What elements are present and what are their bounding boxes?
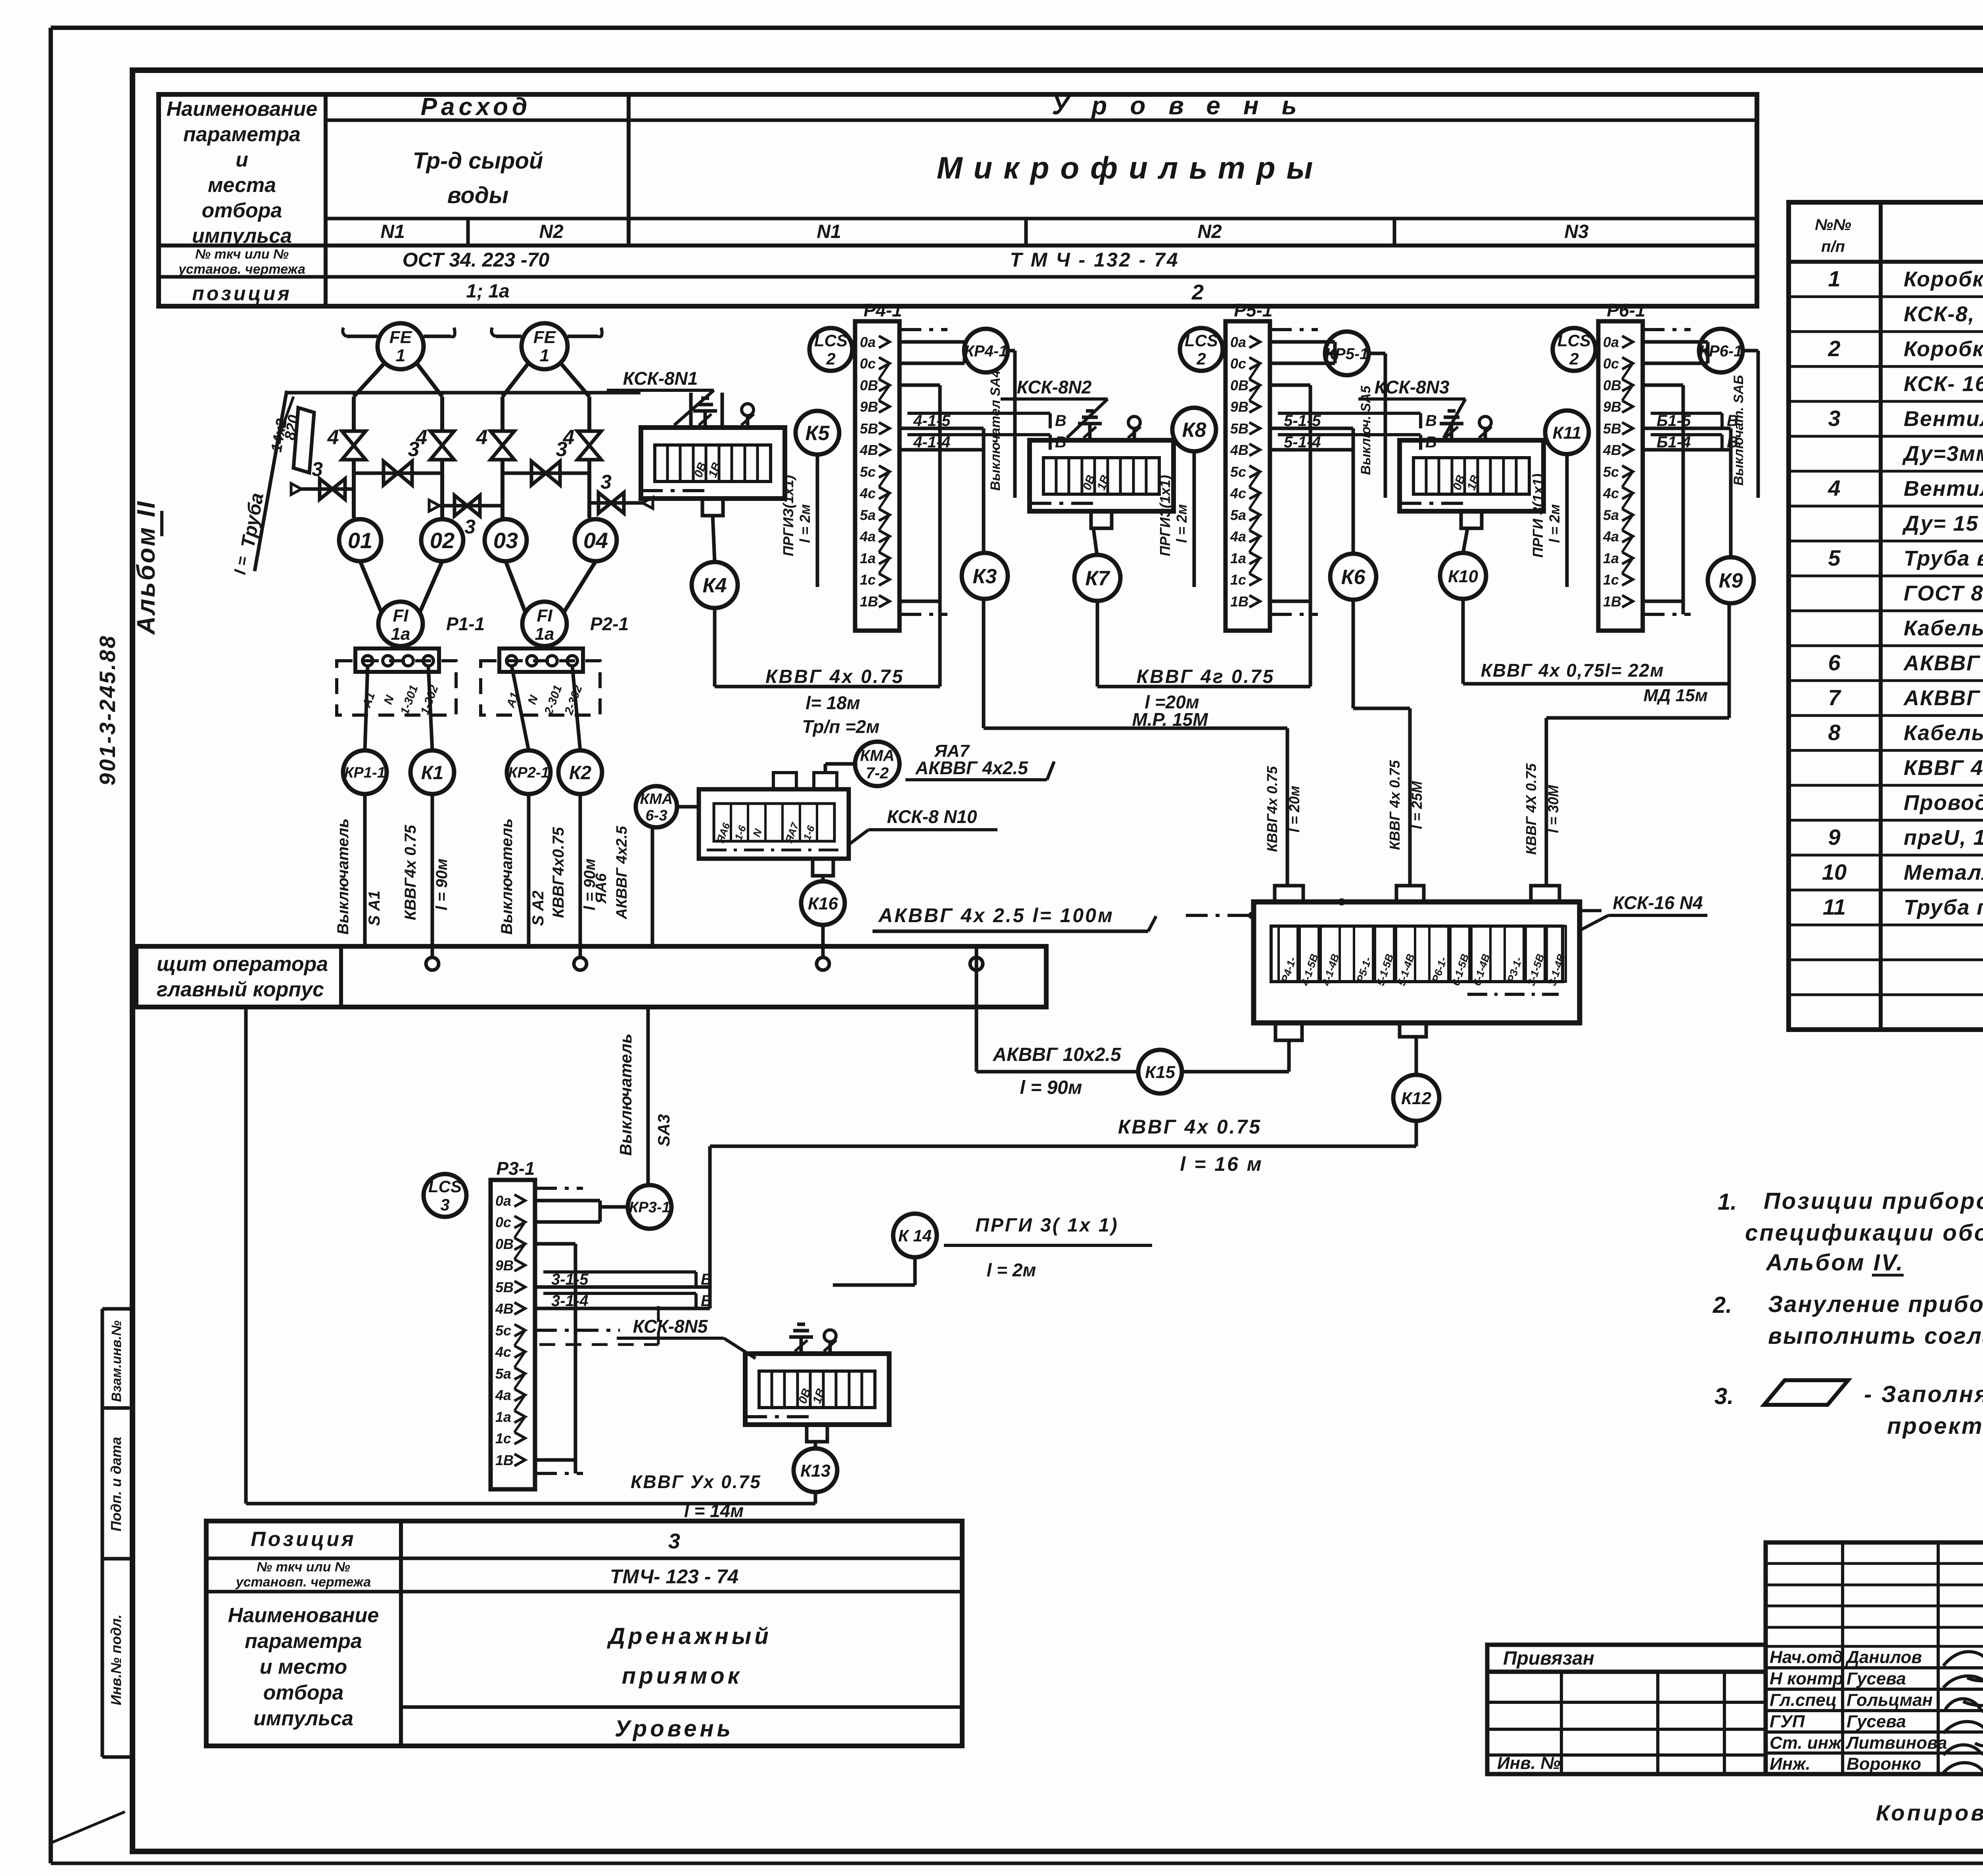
svg-text:К10: К10 <box>1448 567 1479 586</box>
wire box N3 to К10 <box>1463 529 1467 553</box>
svg-text:КР1-1: КР1-1 <box>344 765 385 781</box>
wires from КР1-1 К1 КР2-1 К2 to panel <box>365 794 580 957</box>
svg-text:КСК- 16, ТУ 36. 17 53: КСК- 16, ТУ 36. 17 53 <box>1904 372 1983 396</box>
wires to КР1-1 and К1 <box>365 666 432 750</box>
label КСК-8N1 <box>607 368 714 425</box>
svg-text:Н контр: Н контр <box>1770 1669 1843 1688</box>
circle КР2-1 <box>507 750 550 794</box>
svg-text:3: 3 <box>556 438 568 461</box>
svg-text:К6: К6 <box>1341 566 1366 589</box>
svg-text:КМА: КМА <box>860 747 895 764</box>
svg-text:КВВГ 4х 0,75l= 22м: КВВГ 4х 0,75l= 22м <box>1481 660 1665 681</box>
svg-text:Инж.: Инж. <box>1770 1754 1810 1774</box>
svg-text:Инв.№ подл.: Инв.№ подл. <box>108 1614 124 1705</box>
svg-text:1а: 1а <box>1603 550 1619 566</box>
svg-text:03: 03 <box>493 528 518 553</box>
circle О1 <box>339 519 381 561</box>
svg-text:КСК-8, ТУ 36. 1753: КСК-8, ТУ 36. 1753 <box>1904 302 1983 326</box>
svg-text:Позиции приборов соответст: Позиции приборов соответствуют <box>1764 1188 1983 1214</box>
relay Р5-1 output loop to КР5-1 <box>1270 342 1335 363</box>
svg-text:Т М Ч - 132 - 74: Т М Ч - 132 - 74 <box>1010 249 1179 271</box>
svg-text:КСК-8N5: КСК-8N5 <box>633 1316 708 1337</box>
svg-text:Металлорукав Р3-Ц-Х29: Металлорукав Р3-Ц-Х29 <box>1904 861 1983 884</box>
circle О2 <box>421 519 463 561</box>
circle КР5-1 <box>1325 332 1369 375</box>
wires to КР2-1 and К2 <box>512 666 580 750</box>
svg-text:4: 4 <box>327 426 339 449</box>
svg-text:К13: К13 <box>800 1461 830 1481</box>
svg-text:11: 11 <box>1823 894 1846 919</box>
valves 4 on Р1-1 impulse pipes <box>327 426 454 460</box>
svg-text:ПРГИ 3(1х1): ПРГИ 3(1х1) <box>1530 474 1546 558</box>
svg-text:N2: N2 <box>539 221 564 242</box>
contact wires 5-1-5/5-1-4 <box>1270 412 1437 451</box>
svg-text:1: 1 <box>396 346 405 365</box>
svg-text:FI: FI <box>537 606 552 625</box>
svg-text:N3: N3 <box>1564 221 1589 242</box>
svg-text:0с: 0с <box>1603 355 1619 372</box>
svg-text:LCS: LCS <box>428 1177 462 1196</box>
svg-text:l = 30М: l = 30М <box>1545 785 1561 833</box>
svg-text:1: 1 <box>1828 266 1840 291</box>
svg-text:0а: 0а <box>1230 334 1246 350</box>
svg-text:АКВВГ 10х2.5 кв.мм: АКВВГ 10х2.5 кв.мм <box>1903 686 1983 710</box>
cable КВВГ 4х0.75 l=14м from К13 to panel <box>246 1007 815 1521</box>
svg-text:2.: 2. <box>1713 1292 1732 1318</box>
svg-text:КВВГ4х0.75: КВВГ4х0.75 <box>550 827 567 918</box>
svg-text:Расход: Расход <box>421 93 531 121</box>
circle LCS Р4-1 <box>809 328 852 371</box>
svg-text:0а: 0а <box>860 334 876 350</box>
svg-text:К4: К4 <box>703 574 727 597</box>
svg-text:В: В <box>1055 434 1066 451</box>
wires О to FI Р2-1 <box>502 518 596 613</box>
cable КВВГ 4х0.75 l=22м from К10/К9 <box>1463 597 1729 886</box>
svg-text:К 14: К 14 <box>898 1226 932 1245</box>
circle К15 <box>1138 1050 1182 1093</box>
svg-text:КР6-1: КР6-1 <box>1699 342 1742 360</box>
svg-text:4с: 4с <box>859 485 876 501</box>
album II margin text <box>132 500 162 635</box>
svg-text:Р6-1: Р6-1 <box>1607 300 1645 320</box>
svg-text:импульса: импульса <box>192 224 292 247</box>
svg-text:5с: 5с <box>1603 464 1619 480</box>
svg-text:КВВГ 4Х 0.75: КВВГ 4Х 0.75 <box>1523 763 1539 855</box>
title block signature section <box>1766 1542 1983 1774</box>
svg-text:Уровень: Уровень <box>1052 91 1319 120</box>
svg-text:Вентиль запорный муфтовый: Вентиль запорный муфтовый <box>1904 407 1983 431</box>
svg-text:l = 90м: l = 90м <box>433 859 451 911</box>
cable КВВГ 4х0.75 l=25м from К6 <box>1353 600 1425 886</box>
svg-text:0В: 0В <box>495 1236 514 1252</box>
svg-text:3.: 3. <box>1715 1383 1734 1409</box>
label КСК-8N5 <box>617 1316 756 1358</box>
svg-text:Гусева: Гусева <box>1847 1712 1906 1731</box>
svg-text:0В: 0В <box>1603 377 1621 393</box>
svg-text:К11: К11 <box>1553 423 1582 443</box>
svg-text:В: В <box>1425 412 1437 430</box>
svg-text:установп. чертежа: установп. чертежа <box>235 1575 371 1590</box>
svg-text:МД 15м: МД 15м <box>1644 686 1708 705</box>
ground and test point above box <box>789 1324 836 1354</box>
svg-text:Провод гибкий с медной жил: Провод гибкий с медной жилой <box>1904 791 1983 815</box>
svg-text:параметра: параметра <box>245 1630 362 1653</box>
svg-text:1а: 1а <box>535 624 554 644</box>
svg-text:02: 02 <box>430 528 455 553</box>
svg-text:параметра: параметра <box>183 123 301 146</box>
svg-text:Кабель контрольный ГОСТ 1508-: Кабель контрольный ГОСТ 1508-78Е <box>1904 616 1983 640</box>
svg-text:1с: 1с <box>1603 572 1619 588</box>
svg-text:3: 3 <box>440 1195 449 1214</box>
wire Р6-1 contacts to К9 <box>1729 428 1733 557</box>
svg-text:l = 2м: l = 2м <box>987 1260 1036 1280</box>
svg-text:0В: 0В <box>1230 377 1248 393</box>
flow element FE Р2-1 group <box>491 323 602 518</box>
wire box N5 to К13 <box>814 1442 817 1448</box>
svg-text:3-1-4: 3-1-4 <box>551 1292 588 1310</box>
circle КМА7-2 <box>855 742 899 786</box>
svg-text:4В: 4В <box>1603 442 1621 458</box>
wire box N2 to К7 <box>1093 529 1097 555</box>
svg-text:4В: 4В <box>495 1301 514 1317</box>
svg-text:9В: 9В <box>860 399 878 415</box>
notes text block <box>1713 1188 1983 1439</box>
signatures squiggles <box>1943 1646 1983 1791</box>
operator panel strip щит оператора <box>136 946 1046 1007</box>
svg-text:ПРГИ 3( 1х 1): ПРГИ 3( 1х 1) <box>975 1215 1118 1236</box>
spec table rows <box>1822 266 1983 919</box>
svg-text:l = 2м: l = 2м <box>1174 504 1190 543</box>
svg-text:5В: 5В <box>1230 420 1248 437</box>
switch labels SА1 SА2 and cable labels <box>334 818 598 934</box>
svg-text:SА3: SА3 <box>654 1114 673 1147</box>
svg-text:3: 3 <box>408 438 420 461</box>
svg-text:1а: 1а <box>860 550 876 566</box>
equalizing valve 3 of Р1-1 <box>354 438 442 485</box>
cable КВВГ 4х0.75 l=20м from К7 <box>1097 601 1310 730</box>
svg-text:l = 90м: l = 90м <box>1020 1077 1082 1098</box>
circle К4 <box>692 562 738 608</box>
svg-text:l = 2м: l = 2м <box>797 504 813 543</box>
svg-text:5с: 5с <box>1230 464 1246 480</box>
wire 0В column Р5-1 <box>1309 385 1312 687</box>
svg-text:5с: 5с <box>860 464 876 480</box>
terminal block Р2-1 <box>481 646 600 717</box>
signature names <box>1770 1648 1947 1774</box>
left sub-table (Privyazan) <box>1487 1645 1766 1774</box>
svg-text:ГОСТ 8734-75/ГОСТ 8733-74: ГОСТ 8734-75/ГОСТ 8733-74 <box>1904 581 1983 605</box>
circle К3 <box>962 553 1008 599</box>
svg-text:АКВВГ 10х2.5: АКВВГ 10х2.5 <box>992 1044 1121 1065</box>
svg-text:- Заполняется при привяз: - Заполняется при привязке <box>1864 1381 1983 1407</box>
impulse rail to КСК-8 N1 <box>287 391 641 395</box>
svg-text:КР5-1: КР5-1 <box>1325 345 1368 363</box>
cable flag ПРГИ 3(1х1) l=2м at К14 <box>944 1215 1152 1280</box>
svg-text:Выключат. SАБ: Выключат. SАБ <box>1731 375 1746 486</box>
cable ПРГИЗ from К5 <box>780 455 817 587</box>
svg-text:воды: воды <box>447 182 508 208</box>
junction box КСК-8 N10 <box>699 773 849 876</box>
svg-text:№№: №№ <box>1815 216 1851 234</box>
svg-text:Позиция: Позиция <box>251 1528 356 1551</box>
relay strip Р4-1 <box>855 300 902 631</box>
drain valve 3 right <box>589 471 653 513</box>
dashed box right of Р3-1 <box>535 1306 658 1345</box>
svg-text:1а: 1а <box>495 1409 511 1425</box>
svg-text:l = 90м: l = 90м <box>581 859 598 911</box>
junction box КСК-8N1 <box>641 428 785 516</box>
svg-text:пргU, 1х1кв. мм: пргU, 1х1кв. мм <box>1904 826 1983 850</box>
svg-text:Гл.спец: Гл.спец <box>1770 1690 1837 1710</box>
svg-text:4с: 4с <box>1230 485 1246 501</box>
svg-text:LCS: LCS <box>1185 331 1218 350</box>
svg-text:щит оператора: щит оператора <box>157 953 328 976</box>
svg-text:К3: К3 <box>973 565 997 588</box>
svg-text:4с: 4с <box>495 1344 511 1360</box>
svg-text:и: и <box>236 148 248 171</box>
svg-text:l = 14м: l = 14м <box>684 1500 744 1521</box>
contact wires Б1-5/Б1-4 <box>1643 412 1738 451</box>
svg-text:В: В <box>1425 434 1437 451</box>
svg-text:Уровень: Уровень <box>615 1716 734 1742</box>
svg-text:4а: 4а <box>859 528 876 545</box>
svg-text:АКВВГ 4х 2.5 l= 100м: АКВВГ 4х 2.5 l= 100м <box>878 904 1114 926</box>
circle К1 <box>410 750 454 794</box>
svg-text:К1: К1 <box>421 762 443 783</box>
equalizing valve 3 of Р2-1 <box>502 438 589 485</box>
svg-text:п/п: п/п <box>1821 238 1845 255</box>
svg-text:4: 4 <box>476 426 488 449</box>
circle КР6-1 <box>1699 329 1743 372</box>
svg-text:КВВГ 4х 0.75: КВВГ 4х 0.75 <box>1118 1116 1262 1138</box>
relay strip Р5-1 <box>1225 300 1273 631</box>
svg-text:Ду=3мм; Ру= 16 кгс/см2 3В-2: Ду=3мм; Ру= 16 кгс/см2 3В-2м <box>1902 442 1983 466</box>
wire КМА7-2 to box N10 <box>825 764 855 773</box>
svg-text:К7: К7 <box>1085 567 1110 590</box>
svg-text:Выключател SА4: Выключател SА4 <box>988 370 1003 491</box>
svg-text:КСК-8N2: КСК-8N2 <box>1017 377 1092 397</box>
svg-text:Микрофильтры: Микрофильтры <box>937 150 1324 185</box>
circle К16 <box>801 881 845 925</box>
svg-text:Ст. инж: Ст. инж <box>1770 1733 1842 1753</box>
wires О to FI Р1-1 <box>354 518 442 613</box>
svg-text:FI: FI <box>393 606 408 625</box>
svg-text:2: 2 <box>826 349 835 368</box>
svg-text:2: 2 <box>1828 336 1840 361</box>
svg-text:LCS: LCS <box>814 331 848 350</box>
svg-text:Вентиль запорный муфтовый: Вентиль запорный муфтовый <box>1904 477 1983 501</box>
cable КВВГ 4х0.75 l=18м from К4 <box>715 608 940 737</box>
svg-text:Гусева: Гусева <box>1847 1669 1906 1688</box>
svg-text:КВВГ Ух 0.75: КВВГ Ух 0.75 <box>631 1471 761 1492</box>
dash-dot leads Р6-1 <box>1643 328 1691 331</box>
flow element FE Р1-1 group <box>343 323 455 518</box>
wire Р5-1 contacts to К6 <box>1352 428 1355 554</box>
svg-text:Р2-1: Р2-1 <box>590 614 629 634</box>
svg-text:3-1-5: 3-1-5 <box>551 1271 589 1288</box>
spec table header texts <box>1815 216 1983 255</box>
wire КМА6-3 to box N10 <box>677 805 699 809</box>
svg-text:0с: 0с <box>860 355 876 372</box>
svg-text:4В: 4В <box>1230 442 1248 458</box>
svg-text:Кабель контрольный с медной жи: Кабель контрольный с медной жилой <box>1904 721 1983 745</box>
svg-text:АКВВГ 4х2.5: АКВВГ 4х2.5 <box>915 758 1028 778</box>
svg-text:1В: 1В <box>860 593 878 610</box>
svg-text:0а: 0а <box>495 1193 511 1209</box>
label КСК-16 N4 <box>1580 892 1707 930</box>
svg-text:проекта.: проекта. <box>1887 1413 1983 1439</box>
svg-text:Данилов: Данилов <box>1845 1648 1922 1667</box>
circle КР4-1 <box>964 329 1008 372</box>
svg-text:К5: К5 <box>805 422 830 445</box>
label КСК-8N3 <box>1358 377 1465 438</box>
К16 circle and wires <box>821 876 825 881</box>
cable flag АКВВГ 4х2.5 l=100м <box>873 904 1156 931</box>
svg-text:Р4-1: Р4-1 <box>863 300 902 320</box>
svg-text:l = 2м: l = 2м <box>1546 504 1563 543</box>
svg-text:места: места <box>208 174 276 197</box>
drain valve 3 left <box>291 458 354 499</box>
svg-text:0В: 0В <box>860 377 878 393</box>
svg-text:КВВГ4х 0.75: КВВГ4х 0.75 <box>402 825 419 920</box>
svg-text:Наименование: Наименование <box>228 1604 379 1627</box>
wire box N1 to К4 <box>713 516 715 562</box>
svg-text:1с: 1с <box>860 572 876 588</box>
svg-text:КВВГ 4х 0.75: КВВГ 4х 0.75 <box>765 666 904 687</box>
svg-text:Зануление приборов, соедини: Зануление приборов, соединительных короб… <box>1768 1291 1983 1317</box>
svg-text:ПРГИЗ(1х1): ПРГИЗ(1х1) <box>1157 475 1173 556</box>
svg-text:К12: К12 <box>1401 1089 1432 1108</box>
switch line Выключ. SА5 <box>1358 353 1385 498</box>
svg-text:позиция: позиция <box>192 282 292 305</box>
svg-text:В: В <box>1727 412 1738 430</box>
svg-text:КВВГ 4г 0.75: КВВГ 4г 0.75 <box>1137 666 1275 687</box>
svg-text:КР4-1: КР4-1 <box>964 342 1007 360</box>
svg-text:7-2: 7-2 <box>866 764 889 782</box>
svg-text:5: 5 <box>1828 545 1841 570</box>
cable ПРГИЗ from К8 <box>1157 451 1194 587</box>
svg-text:К16: К16 <box>808 894 838 913</box>
svg-text:2: 2 <box>1569 349 1578 368</box>
circle К6 <box>1330 554 1376 600</box>
svg-text:N2: N2 <box>1197 221 1222 242</box>
wire 0В column Р4-1 <box>938 385 942 687</box>
Kopiroval line <box>1876 1800 1983 1853</box>
junction box КСК-8N2 <box>1030 440 1174 528</box>
svg-text:l= 18м: l= 18м <box>805 692 860 713</box>
rail wires into box N1 <box>691 393 722 428</box>
svg-text:КР3-1: КР3-1 <box>629 1199 670 1216</box>
svg-text:КСК-8N1: КСК-8N1 <box>623 368 698 389</box>
svg-text:5а: 5а <box>1230 507 1246 523</box>
circle КР1-1 <box>343 750 387 794</box>
svg-text:1.: 1. <box>1718 1189 1737 1215</box>
circle LCS Р6-1 <box>1553 328 1596 371</box>
svg-text:9В: 9В <box>495 1257 514 1274</box>
svg-text:Альбом IV.: Альбом IV. <box>1765 1250 1904 1276</box>
relay Р6-1 output loop to КР6-1 <box>1643 342 1708 363</box>
svg-text:Коробка соединительная: Коробка соединительная <box>1904 337 1983 361</box>
junction box КСК-8N3 <box>1400 440 1544 528</box>
svg-text:4: 4 <box>1828 476 1840 501</box>
svg-text:0с: 0с <box>1230 355 1246 372</box>
circle К10 <box>1440 553 1486 599</box>
pipe label Труба 14х2/820 <box>232 391 314 576</box>
svg-text:Тр-д сырой: Тр-д сырой <box>413 148 543 174</box>
cable ПРГИ from К11 <box>1530 454 1567 587</box>
relay strip Р6-1 <box>1598 300 1645 631</box>
svg-text:К9: К9 <box>1719 570 1743 593</box>
svg-text:№ ткч или №: № ткч или № <box>195 247 289 262</box>
svg-text:приямок: приямок <box>622 1663 742 1689</box>
svg-text:3: 3 <box>464 516 476 538</box>
svg-text:9: 9 <box>1828 825 1840 850</box>
svg-text:КВВГ 4х 0.75 кв. мм: КВВГ 4х 0.75 кв. мм <box>1904 756 1983 780</box>
svg-text:1а: 1а <box>391 624 410 644</box>
svg-text:Выключатель: Выключатель <box>498 818 516 934</box>
circle КР3-1 <box>628 1185 671 1229</box>
svg-text:Подп. и дата: Подп. и дата <box>108 1437 124 1531</box>
panel terminal circles <box>426 957 983 970</box>
cable КВВГ 4х0.75 l=20м from К3 to КСК-16 <box>984 599 1302 886</box>
svg-text:ПРГИЗ(1х1): ПРГИЗ(1х1) <box>780 475 796 556</box>
svg-text:1а: 1а <box>1230 550 1246 566</box>
svg-text:КМА: КМА <box>640 791 673 808</box>
svg-text:3: 3 <box>312 458 323 480</box>
dash-dot leads Р4-1 <box>899 328 947 331</box>
svg-text:5а: 5а <box>860 507 876 523</box>
svg-text:1; 1а: 1; 1а <box>466 281 509 302</box>
svg-text:Ду= 15 мм, 15ч8п2: Ду= 15 мм, 15ч8п2 <box>1902 512 1983 535</box>
svg-text:4-1-4: 4-1-4 <box>913 434 950 451</box>
svg-text:6: 6 <box>1828 650 1841 675</box>
cable ЯА6 АКВВГ4х2.5 down to panel <box>593 826 652 946</box>
flow indicator FI Р2-1 <box>522 602 629 646</box>
svg-text:Привязан: Привязан <box>1503 1648 1594 1669</box>
svg-text:9В: 9В <box>1230 399 1248 415</box>
svg-text:4с: 4с <box>1603 485 1619 501</box>
svg-text:4-1-5: 4-1-5 <box>913 412 951 430</box>
relay Р4-1 output loop to КР4-1 <box>899 342 965 363</box>
svg-text:2: 2 <box>1191 280 1204 304</box>
svg-text:l = 16 м: l = 16 м <box>1180 1153 1263 1175</box>
svg-text:S А1: S А1 <box>366 891 383 926</box>
circle К5 <box>796 411 839 455</box>
wire К15 to КСК-16 bottom tab <box>1182 1040 1289 1072</box>
svg-text:Взам.инв.№: Взам.инв.№ <box>109 1320 124 1402</box>
circle LCS Р5-1 <box>1180 328 1223 371</box>
svg-text:S А2: S А2 <box>529 891 547 926</box>
svg-text:l = 25М: l = 25М <box>1409 781 1425 829</box>
switch line Выключат. SАБ <box>1731 351 1758 498</box>
header table texts <box>167 91 1589 305</box>
svg-text:Р3-1: Р3-1 <box>496 1158 535 1179</box>
circle О4 <box>575 519 617 561</box>
svg-text:Альбом II: Альбом II <box>132 500 160 635</box>
svg-text:4а: 4а <box>1603 528 1619 545</box>
svg-text:ГУП: ГУП <box>1770 1712 1805 1731</box>
svg-text:Труба полиэтиленовая 40х3: Труба полиэтиленовая 40х3 <box>1904 896 1983 919</box>
svg-text:КВВГ4х 0.75: КВВГ4х 0.75 <box>1264 766 1280 852</box>
label КСК-8N2 <box>1001 377 1108 438</box>
svg-text:К2: К2 <box>569 762 592 783</box>
svg-text:КСК-8 N10: КСК-8 N10 <box>887 806 977 827</box>
svg-text:5с: 5с <box>495 1322 511 1339</box>
circle К12 <box>1393 1075 1439 1121</box>
svg-text:8: 8 <box>1828 720 1841 745</box>
svg-text:901-3-245.88: 901-3-245.88 <box>95 634 120 785</box>
circle К7 <box>1074 555 1120 601</box>
